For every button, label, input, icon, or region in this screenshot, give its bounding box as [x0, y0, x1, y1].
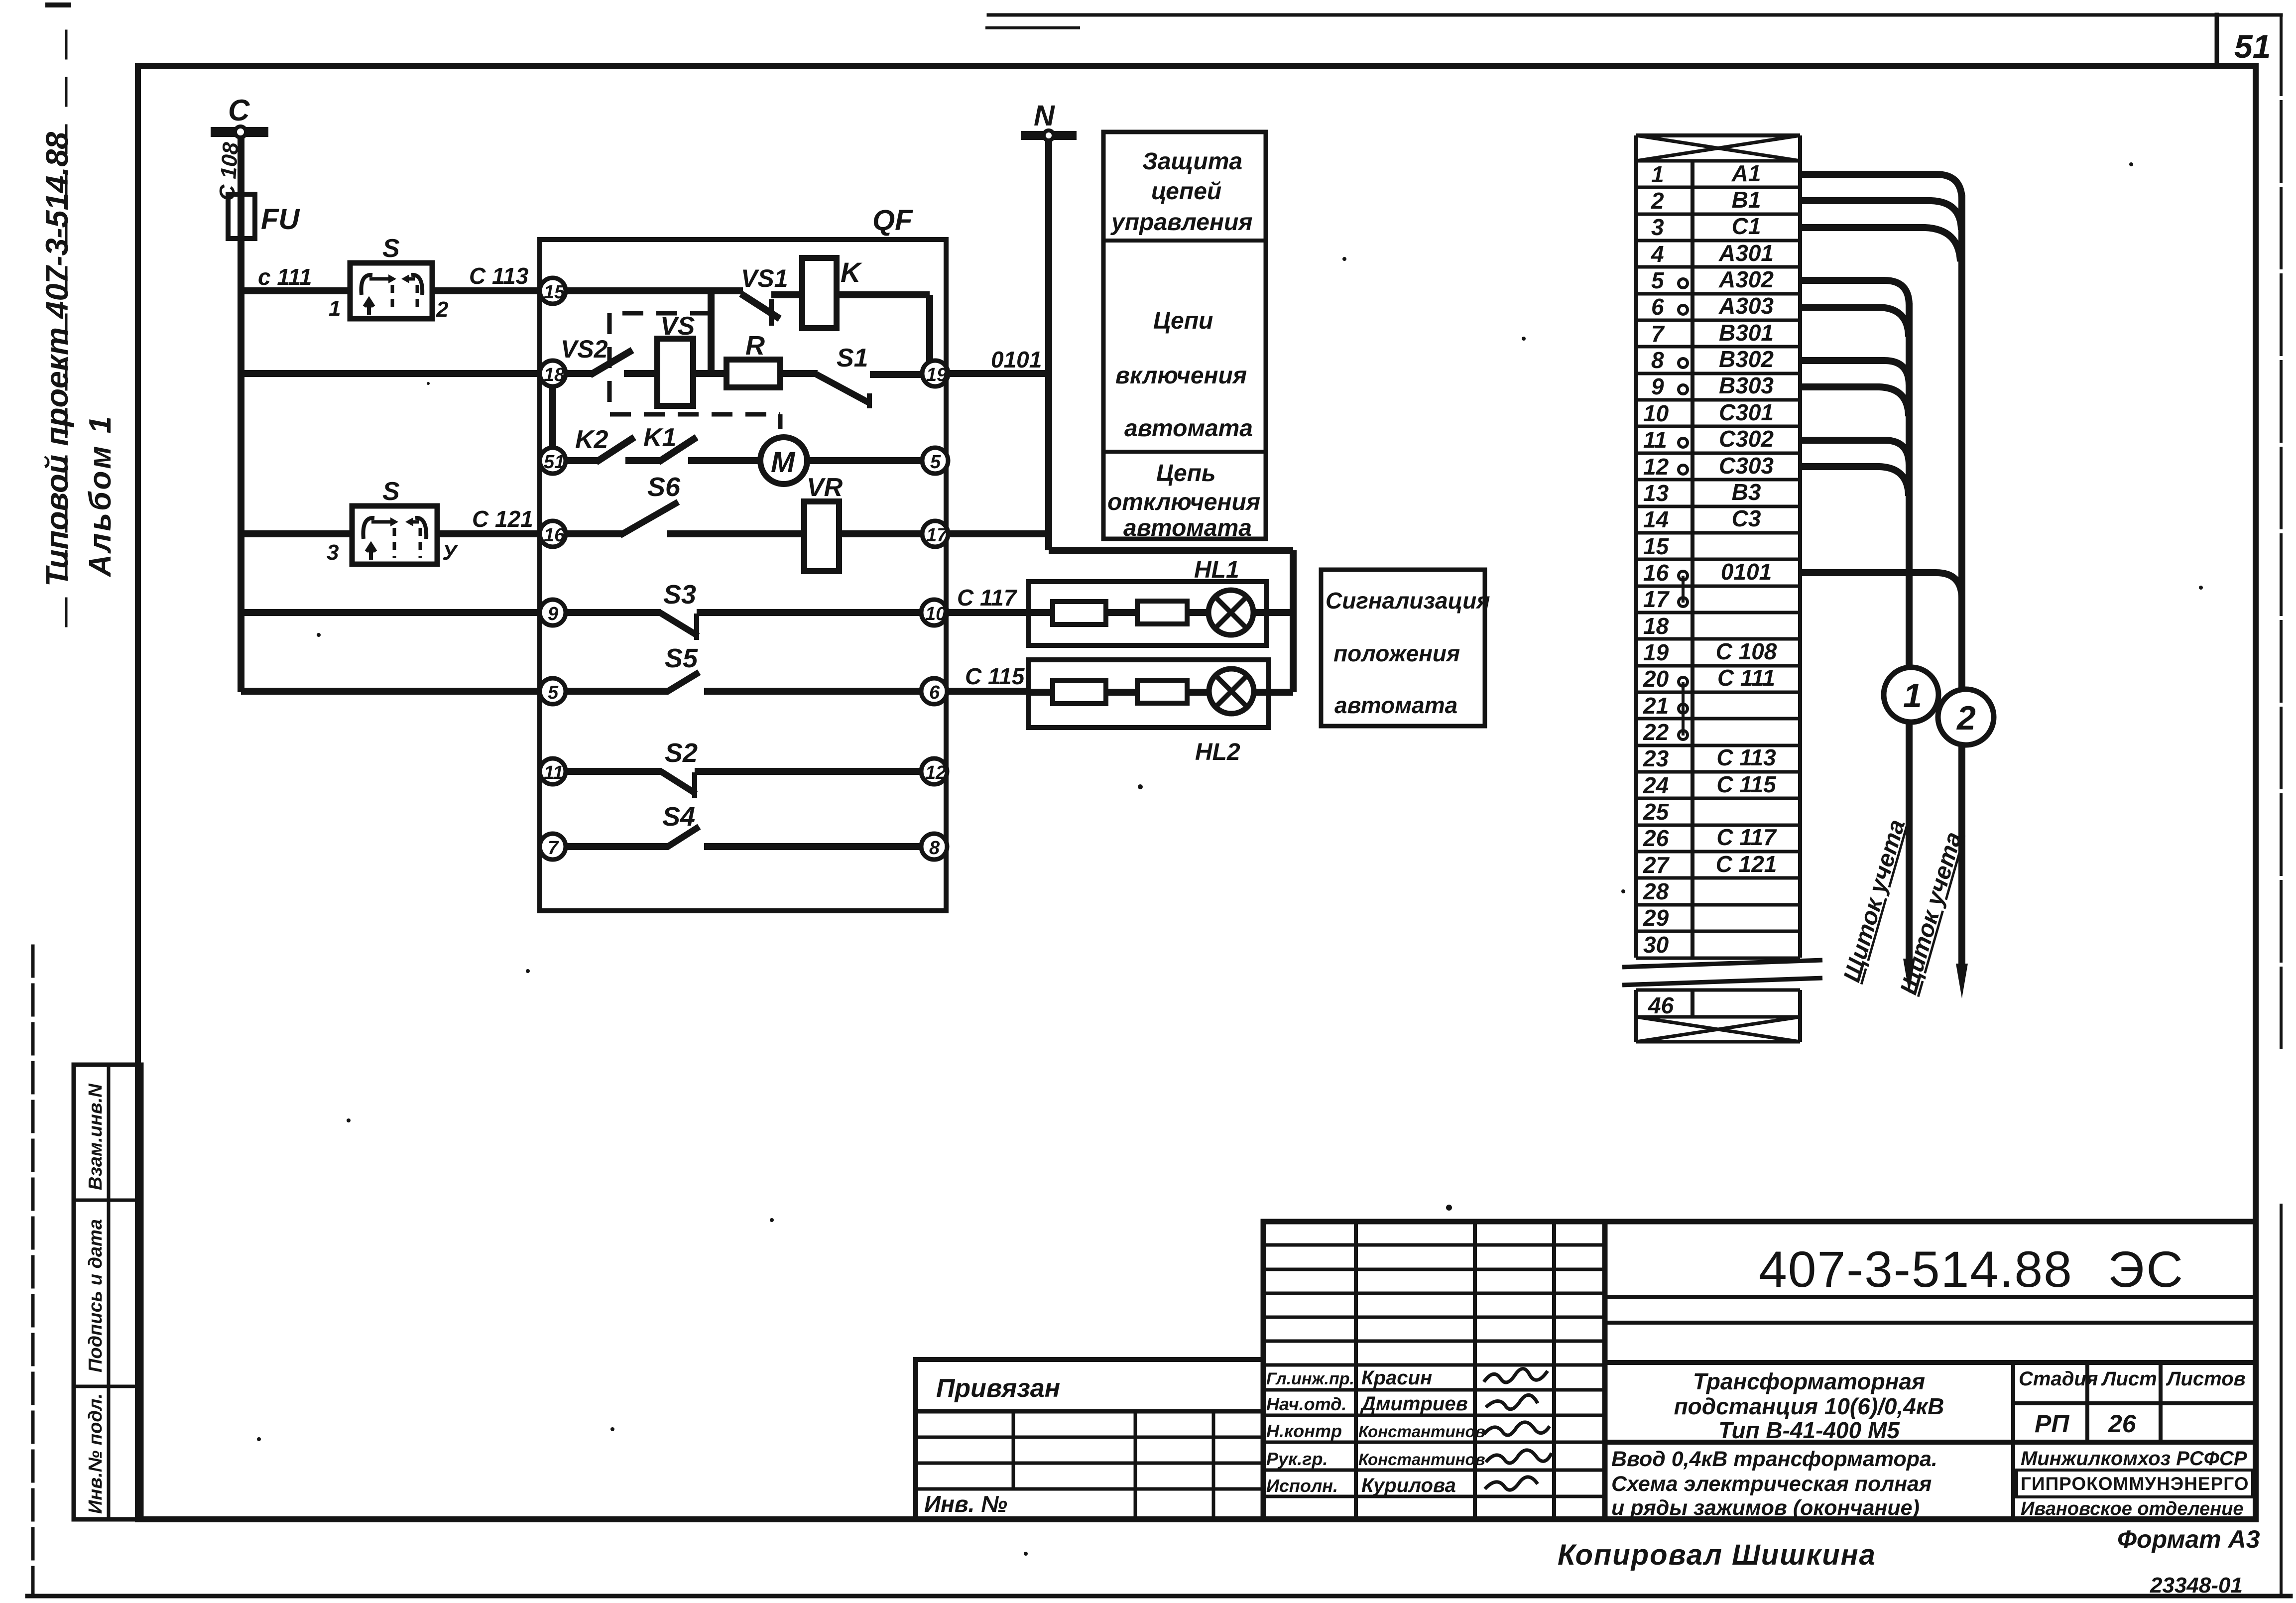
svg-text:Минжилкомхоз РСФСР: Минжилкомхоз РСФСР [2021, 1448, 2247, 1470]
svg-text:407-3-514.88: 407-3-514.88 [1759, 1241, 2073, 1298]
svg-text:46: 46 [1648, 992, 1674, 1018]
title block grid [1263, 1222, 2256, 1519]
wire net B1 [1800, 201, 1961, 230]
svg-text:12: 12 [1643, 454, 1669, 480]
svg-text:C 117: C 117 [957, 585, 1018, 611]
svg-text:2: 2 [1651, 188, 1664, 214]
wire row4 inside QF (terminal 16 to S6) [553, 530, 622, 537]
page top edge line [987, 15, 2281, 28]
stage/sheet values [2035, 1410, 2137, 1438]
svg-text:15: 15 [544, 282, 565, 303]
svg-text:A1: A1 [1731, 160, 1761, 186]
svg-text:S3: S3 [663, 580, 696, 610]
svg-text:A301: A301 [1718, 240, 1774, 266]
svg-text:VR: VR [807, 473, 843, 502]
label Щиток учета (wire 1) [1839, 817, 1911, 985]
left stamp column [74, 1065, 141, 1519]
svg-text:Взам.инв.N: Взам.инв.N [85, 1083, 106, 1190]
svg-text:24: 24 [1643, 772, 1669, 798]
pin label 3 [327, 540, 339, 565]
svg-text:51: 51 [544, 452, 565, 473]
meter circle 2 [1938, 689, 1994, 745]
svg-text:Исполн.: Исполн. [1266, 1476, 1338, 1496]
svg-text:подстанция 10(6)/0,4кВ: подстанция 10(6)/0,4кВ [1674, 1393, 1944, 1419]
terminal 30 [1643, 932, 1669, 958]
svg-text:19: 19 [926, 365, 947, 385]
wire N to lamp bus [1049, 550, 1293, 692]
label Инв.№ подл. [85, 1393, 106, 1514]
wire row3 (terminal 51 to K2) [553, 457, 598, 464]
terminal 23 net C 113 [1643, 744, 1776, 771]
svg-text:19: 19 [1643, 639, 1669, 665]
svg-text:3: 3 [327, 540, 339, 565]
svg-text:Константинов: Константинов [1358, 1422, 1485, 1441]
svg-text:11: 11 [1643, 427, 1667, 453]
svg-text:C302: C302 [1719, 426, 1774, 452]
svg-text:включения: включения [1115, 363, 1247, 389]
svg-text:C 117: C 117 [1716, 824, 1777, 850]
terminal 15 [540, 278, 566, 304]
terminal 14 net C3 [1643, 505, 1761, 532]
svg-text:7: 7 [548, 838, 559, 859]
svg-text:3: 3 [1651, 214, 1664, 240]
resistor R [726, 360, 780, 387]
label S4 [662, 802, 695, 832]
svg-text:C 115: C 115 [965, 663, 1025, 689]
svg-text:25: 25 [1643, 799, 1670, 825]
node N (neutral terminal bar) [1021, 130, 1077, 140]
svg-text:Красин: Красин [1361, 1367, 1432, 1389]
svg-text:Константинов: Константинов [1358, 1450, 1485, 1469]
label VS2 [561, 335, 608, 363]
svg-text:Инв. №: Инв. № [924, 1491, 1007, 1517]
svg-text:Альбом 1: Альбом 1 [83, 414, 118, 578]
arrow head wire 1 [1903, 959, 1915, 993]
label S6 [647, 472, 681, 502]
terminal 22 [1643, 719, 1688, 745]
svg-text:Нач.отд.: Нач.отд. [1266, 1394, 1346, 1414]
wire row8 inside QF (terminal 7 to S4) [553, 843, 668, 850]
terminal 2 net B1 [1651, 187, 1761, 214]
svg-text:положения: положения [1333, 640, 1460, 666]
svg-text:Лист: Лист [2101, 1368, 2157, 1390]
contact S3 [660, 613, 923, 640]
wire net C302 [1800, 440, 1909, 465]
svg-text:отключения: отключения [1107, 489, 1260, 515]
svg-text:8: 8 [929, 838, 940, 859]
svg-text:29: 29 [1643, 905, 1669, 931]
wire K coil to terminal 19 [837, 295, 930, 373]
contact S5 [666, 672, 923, 692]
svg-text:М: М [771, 446, 796, 479]
svg-text:1: 1 [1651, 161, 1664, 187]
svg-text:C 111: C 111 [1717, 665, 1775, 691]
signatures [1484, 1368, 1552, 1490]
terminal 8 net B302 [1651, 346, 1774, 373]
terminal 26 net C 117 [1643, 824, 1777, 851]
label Привязан [936, 1374, 1060, 1403]
svg-text:S6: S6 [647, 472, 681, 502]
wire C bus (vertical, net C108) [238, 135, 244, 692]
svg-text:C 108: C 108 [1716, 638, 1777, 664]
svg-text:10: 10 [1643, 400, 1669, 426]
svg-text:C 121: C 121 [1716, 851, 1777, 877]
svg-text:S2: S2 [665, 738, 698, 768]
svg-text:0101: 0101 [1721, 559, 1772, 585]
annotation box: Сигнализация положения автомата [1321, 570, 1490, 726]
svg-text:VS2: VS2 [561, 335, 608, 363]
label S2 [665, 738, 698, 768]
svg-text:S: S [382, 477, 400, 506]
terminal 9 [540, 600, 566, 625]
label VS [660, 312, 695, 341]
stage/sheet headers [2019, 1368, 2246, 1390]
relay VR [804, 501, 839, 571]
svg-text:20: 20 [1643, 666, 1669, 692]
page left edge line [33, 5, 69, 1596]
svg-text:0101: 0101 [991, 347, 1042, 372]
terminal 6 net A303 [1651, 293, 1774, 320]
binding table (Привязан) [916, 1359, 1263, 1519]
document number 407-3-514.88 ЭС [1759, 1241, 2185, 1298]
svg-text:C301: C301 [1719, 399, 1774, 425]
svg-text:автомата: автомата [1124, 415, 1253, 442]
svg-text:Инв.№ подл.: Инв.№ подл. [85, 1393, 106, 1514]
sheet number 51 [2234, 28, 2271, 65]
wire bundle 1 riser (meter 1) [1906, 303, 1913, 967]
svg-text:Формат А3: Формат А3 [2117, 1525, 2260, 1553]
label K1 [643, 423, 676, 452]
pin label У [442, 540, 459, 565]
terminal 19 net C 108 [1643, 638, 1777, 665]
pin label 2 [436, 297, 449, 322]
svg-text:21: 21 [1643, 693, 1669, 719]
svg-text:управления: управления [1110, 209, 1253, 236]
svg-text:Н.контр: Н.контр [1266, 1421, 1342, 1441]
svg-text:C 113: C 113 [1716, 744, 1776, 770]
svg-text:1: 1 [1903, 677, 1922, 715]
resistor HL2-R2 [1137, 680, 1187, 703]
label C 108 [215, 141, 243, 202]
terminal 24 net C 115 [1643, 771, 1777, 798]
vertical margin title: Типовой проект 407-3-514.88 [40, 132, 75, 587]
contact K1 [658, 437, 760, 462]
label Щиток учета (wire 2) [1896, 829, 1967, 997]
svg-text:5: 5 [548, 682, 559, 703]
svg-text:Тип В-41-400 М5: Тип В-41-400 М5 [1718, 1417, 1900, 1443]
svg-text:N: N [1034, 100, 1055, 132]
terminal 15 [1643, 533, 1670, 559]
jumper link terminals 20-21-22 [1682, 682, 1685, 736]
wire net C1 [1800, 228, 1960, 261]
wire net 0101 (terminal 19 to N riser) [946, 370, 1049, 377]
footer: Копировал Шишкина [1558, 1539, 1876, 1571]
label C [228, 94, 250, 127]
paper speckles [257, 162, 2203, 1556]
wire M to terminal 5 [807, 457, 924, 464]
wire row7 inside QF (terminal 11 to S2) [553, 768, 662, 775]
label S1 [837, 344, 868, 372]
wire row5 (C bus to terminal 9) [241, 609, 553, 616]
label S (switch 1) [382, 234, 400, 263]
svg-text:Трансформаторная: Трансформаторная [1693, 1368, 1925, 1394]
label S5 [665, 643, 698, 673]
footer: 23348-01 [2150, 1573, 2243, 1598]
terminal 11 net C302 [1643, 426, 1774, 453]
motor M [760, 437, 807, 484]
contact VS2 [590, 350, 658, 375]
project name [1674, 1368, 1944, 1443]
wire net B302 [1800, 361, 1909, 385]
svg-text:9: 9 [1651, 373, 1664, 399]
terminal 18 [1643, 613, 1669, 639]
terminal 16 [540, 521, 566, 547]
breaker QF outline box [540, 240, 946, 911]
svg-text:C: C [228, 94, 250, 127]
label C117 [957, 585, 1018, 611]
terminal 1 net A1 [1651, 160, 1761, 187]
label Инв. № [924, 1491, 1007, 1517]
svg-text:27: 27 [1643, 852, 1670, 878]
svg-text:K: K [841, 256, 862, 288]
svg-text:Ввод 0,4кВ трансформатора.: Ввод 0,4кВ трансформатора. [1611, 1447, 1937, 1471]
contact S6 [620, 502, 804, 535]
label VS1 [741, 264, 788, 292]
svg-text:28: 28 [1643, 878, 1669, 904]
wire net C117 (terminal 10 to HL1) [947, 609, 1028, 616]
resistor HL1-R2 [1137, 601, 1187, 624]
page right edge line [2280, 15, 2283, 1594]
terminal 9 net B303 [1651, 372, 1774, 399]
terminal 4 net A301 [1651, 240, 1774, 267]
wire row2 inside QF (terminal 18 to VS2) [553, 370, 593, 377]
terminal 11 [540, 758, 566, 784]
svg-text:B303: B303 [1719, 372, 1774, 398]
lamp unit HL1 box [1028, 582, 1266, 645]
svg-text:6: 6 [1651, 294, 1664, 320]
svg-text:Дмитриев: Дмитриев [1360, 1393, 1468, 1415]
switch S (selector, pins 3-У) [352, 506, 437, 564]
svg-text:6: 6 [929, 682, 940, 703]
svg-text:Щиток учета: Щиток учета [1839, 817, 1911, 985]
organization [2017, 1448, 2253, 1519]
svg-text:Сигнализация: Сигнализация [1326, 588, 1490, 614]
svg-text:Гл.инж.пр.: Гл.инж.пр. [1266, 1369, 1354, 1388]
svg-text:4: 4 [1651, 241, 1664, 267]
svg-text:B3: B3 [1732, 479, 1761, 505]
lamp unit HL2 box [1028, 660, 1269, 728]
terminal 29 [1643, 905, 1669, 931]
wire through HL1 [1028, 609, 1293, 616]
svg-text:2: 2 [1956, 699, 1976, 737]
svg-text:S1: S1 [837, 344, 868, 372]
svg-text:HL1: HL1 [1194, 557, 1239, 583]
label 0101 [991, 347, 1042, 372]
svg-text:13: 13 [1643, 480, 1669, 506]
svg-text:18: 18 [1643, 613, 1669, 639]
svg-text:A302: A302 [1718, 266, 1774, 292]
svg-text:5: 5 [930, 452, 941, 473]
svg-text:Цепи: Цепи [1153, 308, 1213, 334]
svg-text:HL2: HL2 [1195, 739, 1240, 765]
svg-text:S4: S4 [662, 802, 695, 832]
svg-text:Ивановское отделение: Ивановское отделение [2021, 1498, 2244, 1519]
label HL1 [1194, 557, 1239, 583]
contact S1 [780, 373, 924, 408]
terminal 12 [921, 758, 947, 784]
pin label 1 [329, 296, 341, 321]
svg-text:цепей: цепей [1151, 178, 1221, 205]
svg-text:C 113: C 113 [469, 263, 529, 289]
wire link terminals 18-51 [549, 385, 556, 450]
lamp HL1 [1208, 590, 1253, 635]
terminal 7 [540, 834, 566, 860]
label R [745, 331, 765, 361]
jumper link terminals 16-17 [1682, 576, 1685, 603]
label C121 [472, 506, 533, 532]
svg-text:22: 22 [1643, 719, 1669, 745]
wire VS to R [693, 370, 728, 377]
terminal 5 net A302 [1651, 266, 1774, 293]
svg-text:B301: B301 [1719, 320, 1774, 346]
svg-text:15: 15 [1643, 533, 1670, 559]
svg-text:1: 1 [329, 296, 341, 321]
svg-text:26: 26 [2108, 1410, 2137, 1438]
terminal 5 right [922, 448, 948, 474]
svg-text:Копировал Шишкина: Копировал Шишкина [1558, 1539, 1876, 1571]
svg-text:S5: S5 [665, 643, 698, 673]
svg-text:ГИПРОКОММУНЭНЕРГО: ГИПРОКОММУНЭНЕРГО [2021, 1474, 2249, 1494]
wire junction riser (row1 to row2) [708, 291, 715, 373]
svg-text:26: 26 [1643, 825, 1669, 851]
lamp HL2 [1209, 669, 1254, 714]
svg-text:VS: VS [660, 312, 695, 341]
svg-text:A303: A303 [1718, 293, 1774, 319]
svg-text:C 115: C 115 [1716, 771, 1777, 797]
svg-text:Рук.гр.: Рук.гр. [1266, 1449, 1328, 1469]
svg-text:B1: B1 [1732, 187, 1761, 213]
svg-text:11: 11 [544, 762, 563, 783]
svg-text:30: 30 [1643, 932, 1669, 958]
wire row1 inside QF (terminal 15 to VS1) [553, 287, 743, 294]
wire row1 net c111 / C113 (C bus to terminal 15) [241, 287, 553, 294]
label K2 [575, 425, 608, 454]
terminal 10 net C301 [1643, 399, 1774, 426]
wire row6 inside QF (terminal 5 to S5) [553, 688, 668, 695]
wire net A1 [1800, 174, 1962, 200]
sheet number box [2215, 15, 2219, 66]
svg-text:Схема электрическая полная: Схема электрическая полная [1611, 1472, 1932, 1496]
svg-text:5: 5 [1651, 267, 1665, 293]
contact K2 [596, 437, 660, 462]
svg-text:14: 14 [1643, 506, 1669, 532]
node C (phase C terminal bar) [211, 126, 268, 137]
terminal 16 net 0101 [1643, 559, 1772, 586]
vertical margin title: Альбом 1 [83, 414, 118, 578]
svg-text:R: R [745, 331, 765, 361]
label c111 [258, 264, 312, 290]
svg-text:Подпись и дата: Подпись и дата [85, 1219, 106, 1372]
terminal 3 net C1 [1651, 213, 1761, 240]
svg-text:Стадия: Стадия [2019, 1368, 2098, 1390]
svg-text:7: 7 [1651, 321, 1665, 347]
terminal 51 [540, 448, 566, 474]
switch S (selector, pins 1-2) [350, 263, 432, 319]
svg-text:Цепь: Цепь [1156, 460, 1216, 487]
dashed enclosure around VS [609, 313, 780, 437]
terminal 12 net C303 [1643, 453, 1774, 480]
svg-text:Типовой проект 407-3-514.88: Типовой проект 407-3-514.88 [40, 132, 75, 587]
wire through HL2 [1028, 689, 1293, 696]
wire net A302 [1800, 280, 1909, 305]
svg-text:K1: K1 [643, 423, 676, 452]
wire N riser [1045, 139, 1052, 550]
label FU [261, 203, 300, 236]
wire net 0101 to meter 2 [1800, 573, 1962, 599]
contact VS1 [741, 294, 802, 326]
label S3 [663, 580, 696, 610]
wire net C115 (terminal 6 to HL2) [947, 688, 1028, 695]
contact S2 [661, 771, 923, 798]
svg-text:18: 18 [544, 365, 565, 385]
wire terminal 17 to N riser [946, 530, 1049, 537]
label VR [807, 473, 843, 502]
label C113 [469, 263, 529, 289]
terminal block bottom (row 46) [1636, 990, 1800, 1042]
relay coil K [802, 258, 837, 328]
wire row5 inside QF (terminal 9 to S3) [553, 609, 661, 616]
terminal 7 net B301 [1651, 320, 1774, 347]
page bottom edge line [27, 1594, 2291, 1599]
terminal 10 [921, 600, 947, 625]
terminal 6 [921, 678, 947, 704]
svg-text:FU: FU [261, 203, 300, 236]
terminal block grid [1636, 135, 1800, 958]
svg-text:51: 51 [2234, 28, 2271, 65]
resistor HL2-R1 [1053, 681, 1106, 704]
svg-text:10: 10 [925, 604, 946, 624]
arrow head wire 2 [1956, 964, 1968, 998]
svg-text:C303: C303 [1719, 453, 1774, 479]
svg-text:РП: РП [2035, 1410, 2069, 1438]
terminal 5 [540, 678, 566, 704]
wire bundle 2 riser (meter 2) [1958, 195, 1965, 971]
svg-text:B302: B302 [1719, 346, 1774, 372]
wire VR to terminal 17 [839, 530, 924, 537]
terminal 13 net B3 [1643, 479, 1761, 506]
label S (switch 2) [382, 477, 400, 506]
label Взам.инв.N [85, 1083, 106, 1190]
svg-text:17: 17 [1643, 586, 1670, 612]
label HL2 [1195, 739, 1240, 765]
footer: Формат А3 [2117, 1525, 2260, 1553]
svg-text:и ряды зажимов (окончание): и ряды зажимов (окончание) [1611, 1496, 1920, 1520]
label K [841, 256, 862, 288]
svg-text:16: 16 [544, 525, 565, 546]
svg-text:c 111: c 111 [258, 264, 312, 290]
terminal 25 [1643, 799, 1670, 825]
svg-text:23: 23 [1643, 745, 1669, 771]
svg-text:У: У [442, 540, 459, 565]
svg-text:17: 17 [926, 525, 948, 546]
terminal 8 [921, 834, 947, 860]
terminal 17 [922, 521, 948, 547]
label Подпись и дата [85, 1219, 106, 1372]
terminal 28 [1643, 878, 1669, 904]
wire net B303 [1800, 387, 1909, 416]
sheet name [1611, 1447, 1937, 1520]
svg-text:23348-01: 23348-01 [2150, 1573, 2243, 1598]
